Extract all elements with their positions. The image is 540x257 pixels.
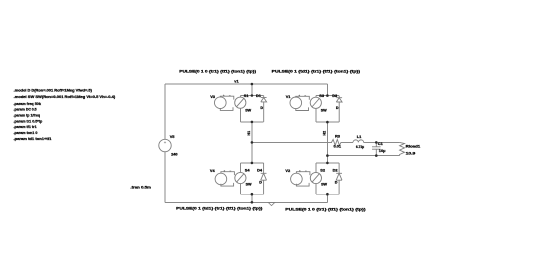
svg-text:.param td1 ton1+tf1: .param td1 ton1+tf1 — [14, 136, 53, 141]
svg-text:240: 240 — [171, 151, 178, 156]
node: S2 top — [326, 162, 329, 165]
gate source V1 — [290, 97, 302, 109]
svg-text:6.72µ: 6.72µ — [356, 144, 365, 149]
switch S3 — [310, 97, 321, 108]
node: S1 top — [251, 94, 254, 97]
svg-text:SW: SW — [246, 183, 252, 187]
svg-text:D3: D3 — [332, 93, 338, 98]
wire: cell box bottom-right — [316, 163, 339, 194]
wire: cell box bottom-left — [240, 163, 263, 194]
svg-text:PULSE(0 1 0 {tr1} {tf1} {ton1}: PULSE(0 1 0 {tr1} {tf1} {ton1} {tp}) — [285, 206, 366, 211]
diode D2 — [336, 163, 342, 194]
svg-text:D1: D1 — [256, 93, 262, 98]
node: top rail / left leg — [251, 83, 254, 86]
wire: cell box top-left — [240, 96, 263, 122]
svg-text:.tran 0.5m: .tran 0.5m — [130, 185, 151, 190]
wire: output bottom (node H2 to load) — [327, 155, 399, 157]
svg-text:R3: R3 — [335, 134, 341, 139]
node: S3 top — [326, 94, 329, 97]
node: S4 top — [251, 162, 254, 165]
svg-text:0.01: 0.01 — [334, 144, 342, 149]
node H2 junction — [326, 154, 329, 157]
resistor R3 (series) — [332, 140, 342, 146]
wire: control loop V1-S3 — [296, 96, 310, 110]
wire: control loop V3-S1 — [220, 96, 234, 110]
wire: top rail v1 — [165, 83, 327, 85]
svg-text:D: D — [335, 181, 338, 185]
diode D1 — [261, 96, 267, 122]
svg-text:S3: S3 — [319, 93, 325, 98]
svg-text:10.9: 10.9 — [406, 150, 417, 155]
capacitor C1 — [372, 142, 381, 155]
node: bottom rail / left leg — [251, 201, 254, 204]
svg-text:D2: D2 — [333, 167, 339, 172]
gate source V4 — [215, 173, 227, 185]
wire: left leg segments — [251, 84, 253, 202]
junction dots — [251, 83, 378, 204]
svg-text:SW: SW — [321, 109, 327, 113]
switch S4 — [235, 172, 246, 183]
node: S4 bottom — [251, 193, 254, 196]
svg-text:.param ton1 0: .param ton1 0 — [14, 130, 38, 135]
svg-text:S1: S1 — [244, 93, 250, 98]
svg-text:PULSE(0 1 {td1} {tr1} {tf1} {t: PULSE(0 1 {td1} {tr1} {tf1} {ton1} {tp}) — [176, 206, 263, 211]
svg-text:10µ: 10µ — [379, 148, 386, 153]
svg-text:V4: V4 — [210, 168, 216, 173]
node: S1 bottom — [251, 121, 254, 124]
svg-text:PULSE(0 1 {td1} {tr1} {tf1} {t: PULSE(0 1 {td1} {tr1} {tf1} {ton1} {tp}) — [272, 69, 361, 74]
wire: bottom rail (ground net) — [165, 201, 327, 203]
svg-text:.model SW SW(Ron=0.001 Roff=1M: .model SW SW(Ron=0.001 Roff=1Meg Vt=0.5 … — [14, 94, 116, 99]
ground — [268, 202, 275, 205]
svg-text:V5: V5 — [170, 134, 176, 139]
svg-text:.model D D(Ron=.001 Roff=1Meg: .model D D(Ron=.001 Roff=1Meg Vfwd=.5) — [14, 88, 93, 93]
svg-text:S2: S2 — [320, 167, 326, 172]
svg-text:V2: V2 — [285, 168, 291, 173]
wire: control loop V2-S2 — [296, 172, 310, 186]
svg-text:D4: D4 — [257, 167, 263, 172]
wire: left vertical (V5 branch) — [164, 84, 166, 202]
svg-text:C1: C1 — [378, 141, 384, 146]
node: C1 bottom — [375, 154, 378, 157]
svg-text:V1: V1 — [286, 94, 292, 99]
svg-text:PULSE(0 1 0 {tr1} {tf1} {ton1}: PULSE(0 1 0 {tr1} {tf1} {ton1} {tp}) — [179, 68, 257, 73]
directive text block (.model/.param) — [14, 88, 116, 142]
svg-text:.param tf1 tr1: .param tf1 tr1 — [14, 124, 38, 129]
switch S2 — [310, 172, 321, 183]
node H1 junction — [251, 141, 254, 144]
gate source V3 — [215, 97, 227, 109]
diode D4 — [261, 163, 267, 194]
svg-text:.param tr1 0.5*tp: .param tr1 0.5*tp — [14, 118, 43, 123]
node: C1 top — [375, 141, 378, 144]
svg-text:.param tp 1/freq: .param tp 1/freq — [14, 113, 41, 118]
gate source V2 — [291, 173, 303, 185]
inductor L1 — [353, 140, 364, 143]
voltage source V5 — [159, 139, 171, 151]
svg-text:V3: V3 — [210, 94, 216, 99]
svg-text:D: D — [260, 106, 263, 110]
svg-text:Rload1: Rload1 — [406, 144, 422, 149]
wire: cell box top-right — [316, 96, 339, 123]
wire: control loop V4-S4 — [221, 172, 235, 186]
switch S1 — [235, 97, 246, 108]
svg-text:S4: S4 — [245, 167, 251, 172]
wire: output top (node H1 to filter) — [252, 141, 400, 143]
svg-text:SW: SW — [321, 183, 327, 187]
svg-text:H1: H1 — [247, 131, 251, 136]
node: S3 bottom — [326, 121, 329, 124]
wire: right leg segments — [326, 84, 328, 202]
svg-text:D: D — [259, 181, 262, 185]
node: S2 bottom — [326, 193, 329, 196]
svg-text:.param DC 0.5: .param DC 0.5 — [14, 107, 38, 112]
svg-text:D: D — [336, 106, 339, 110]
svg-text:H2: H2 — [323, 131, 327, 136]
diode D3 — [336, 96, 342, 123]
resistor Rload1 (load) — [400, 142, 405, 155]
svg-text:SW: SW — [245, 109, 251, 113]
svg-text:.param freq 50k: .param freq 50k — [14, 101, 42, 106]
